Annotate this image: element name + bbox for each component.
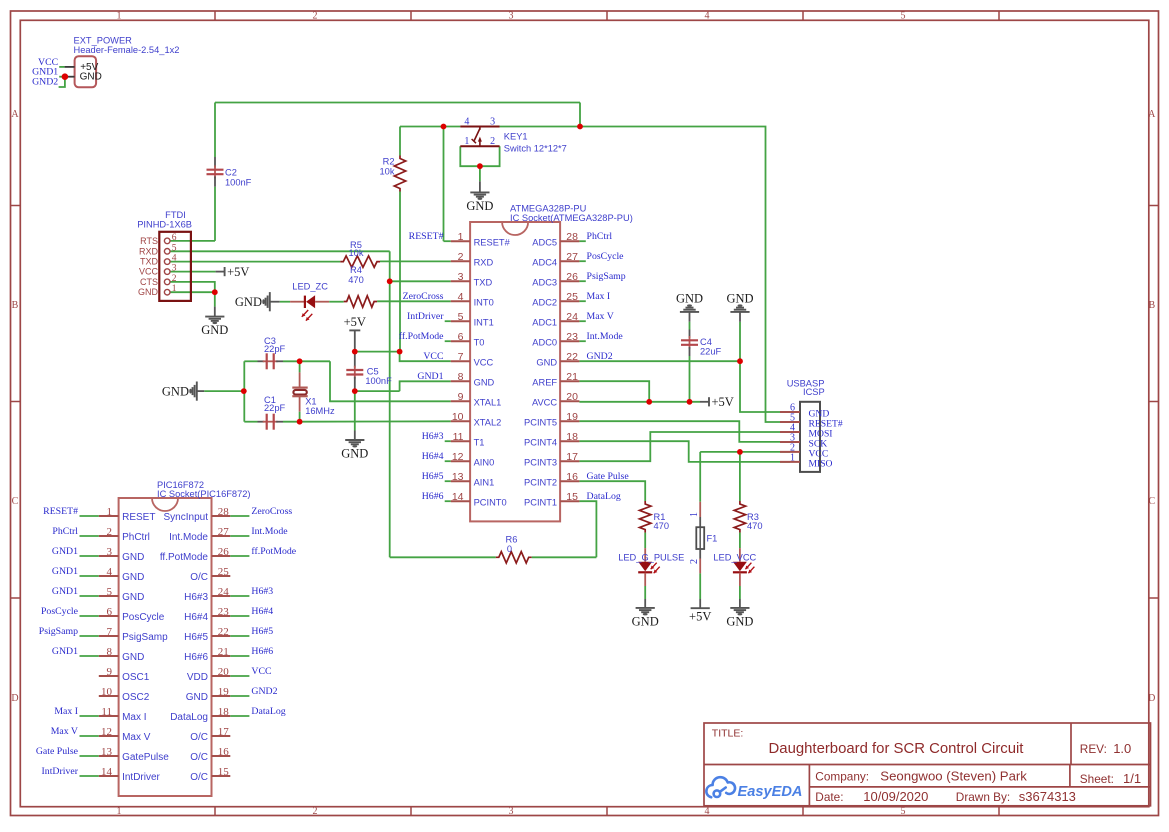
- svg-text:8: 8: [458, 371, 464, 383]
- svg-text:O/C: O/C: [190, 752, 208, 763]
- svg-text:10k: 10k: [349, 248, 364, 258]
- svg-text:LED_G_PULSE: LED_G_PULSE: [618, 553, 684, 563]
- svg-text:H6#4: H6#4: [251, 606, 273, 617]
- svg-text:9: 9: [458, 391, 464, 403]
- svg-text:12: 12: [452, 451, 464, 463]
- svg-text:T1: T1: [474, 437, 485, 447]
- svg-text:1/1: 1/1: [1123, 771, 1141, 786]
- svg-text:H6#6: H6#6: [251, 646, 273, 657]
- svg-text:27: 27: [218, 526, 230, 538]
- svg-text:INT1: INT1: [474, 317, 494, 327]
- svg-text:19: 19: [566, 411, 578, 423]
- svg-text:ZeroCross: ZeroCross: [251, 506, 292, 517]
- svg-text:1: 1: [107, 506, 113, 518]
- svg-text:Int.Mode: Int.Mode: [251, 526, 288, 537]
- svg-text:B: B: [12, 300, 19, 311]
- svg-text:OSC1: OSC1: [122, 672, 150, 683]
- svg-text:C: C: [12, 496, 19, 507]
- svg-text:GND: GND: [341, 447, 368, 461]
- svg-text:ICSP: ICSP: [803, 387, 825, 397]
- svg-text:CTS: CTS: [140, 277, 158, 287]
- svg-text:ADC1: ADC1: [532, 317, 557, 327]
- svg-text:GND: GND: [474, 377, 495, 387]
- svg-text:100nF: 100nF: [225, 177, 252, 187]
- svg-text:GND2: GND2: [32, 77, 58, 88]
- svg-text:H6#5: H6#5: [184, 632, 208, 643]
- svg-text:H6#6: H6#6: [184, 652, 208, 663]
- svg-text:KEY1: KEY1: [504, 132, 528, 142]
- svg-text:24: 24: [566, 311, 578, 323]
- svg-text:DataLog: DataLog: [251, 706, 285, 717]
- svg-text:RESET: RESET: [122, 512, 155, 523]
- svg-text:16: 16: [566, 471, 578, 483]
- svg-text:22pF: 22pF: [264, 344, 286, 354]
- svg-text:Daughterboard for SCR Control: Daughterboard for SCR Control Circuit: [769, 741, 1025, 757]
- svg-text:PCINT2: PCINT2: [524, 477, 557, 487]
- svg-text:25: 25: [566, 291, 578, 303]
- svg-text:ff.PotMode: ff.PotMode: [399, 331, 444, 342]
- svg-text:Max I: Max I: [54, 706, 78, 717]
- svg-text:3: 3: [509, 11, 514, 22]
- svg-text:IntDriver: IntDriver: [122, 772, 160, 783]
- svg-text:5: 5: [172, 243, 177, 253]
- svg-text:+5V: +5V: [712, 395, 734, 409]
- svg-text:A: A: [1148, 109, 1156, 120]
- svg-text:EXT_POWER: EXT_POWER: [74, 36, 133, 46]
- svg-text:PosCycle: PosCycle: [41, 606, 79, 617]
- svg-text:D: D: [1148, 693, 1155, 704]
- svg-text:C2: C2: [225, 168, 237, 178]
- svg-text:GND: GND: [726, 614, 753, 628]
- svg-text:2: 2: [313, 11, 318, 22]
- svg-text:GND: GND: [122, 652, 144, 663]
- svg-text:VCC: VCC: [251, 666, 271, 677]
- svg-text:IntDriver: IntDriver: [42, 766, 79, 777]
- svg-text:ADC3: ADC3: [532, 277, 557, 287]
- svg-text:GND: GND: [201, 323, 228, 337]
- svg-text:Max I: Max I: [122, 712, 146, 723]
- svg-text:1: 1: [790, 452, 795, 463]
- svg-text:3: 3: [172, 264, 177, 274]
- svg-text:15: 15: [566, 491, 578, 503]
- svg-text:3: 3: [509, 806, 514, 817]
- svg-text:INT0: INT0: [474, 297, 494, 307]
- svg-text:ADC2: ADC2: [532, 297, 557, 307]
- svg-text:T0: T0: [474, 337, 485, 347]
- svg-text:GND1: GND1: [52, 646, 78, 657]
- svg-text:GatePulse: GatePulse: [122, 752, 169, 763]
- svg-text:4: 4: [172, 254, 177, 264]
- svg-text:Drawn By:: Drawn By:: [956, 790, 1010, 804]
- svg-text:100nF: 100nF: [365, 376, 392, 386]
- svg-text:12: 12: [101, 726, 112, 738]
- svg-text:GND: GND: [676, 291, 703, 305]
- svg-text:1: 1: [117, 806, 122, 817]
- svg-text:GND: GND: [466, 199, 493, 213]
- svg-text:AREF: AREF: [532, 377, 557, 387]
- svg-text:ADC5: ADC5: [532, 237, 557, 247]
- svg-text:16: 16: [218, 746, 230, 758]
- svg-text:H6#5: H6#5: [422, 471, 444, 482]
- svg-text:22: 22: [566, 351, 578, 363]
- svg-text:8: 8: [107, 646, 113, 658]
- svg-text:22: 22: [218, 626, 229, 638]
- svg-text:H6#4: H6#4: [184, 612, 208, 623]
- svg-text:470: 470: [747, 521, 763, 531]
- svg-text:Gate Pulse: Gate Pulse: [587, 471, 630, 482]
- svg-text:H6#3: H6#3: [184, 592, 208, 603]
- svg-text:+5V: +5V: [344, 315, 366, 329]
- svg-text:GND: GND: [122, 552, 144, 563]
- svg-text:VCC: VCC: [423, 351, 443, 362]
- svg-text:GND: GND: [122, 572, 144, 583]
- svg-text:A: A: [11, 109, 19, 120]
- svg-text:1: 1: [689, 512, 700, 517]
- svg-text:5: 5: [901, 806, 906, 817]
- svg-text:GND1: GND1: [52, 546, 78, 557]
- svg-text:GND: GND: [122, 592, 144, 603]
- svg-text:TITLE:: TITLE:: [712, 727, 744, 739]
- svg-text:GND: GND: [138, 287, 159, 297]
- svg-text:3: 3: [490, 117, 495, 128]
- svg-text:25: 25: [218, 566, 230, 578]
- svg-text:PsigSamp: PsigSamp: [39, 626, 78, 637]
- svg-text:5: 5: [901, 11, 906, 22]
- svg-text:10k: 10k: [380, 167, 395, 177]
- svg-text:4: 4: [705, 11, 710, 22]
- svg-text:3: 3: [458, 271, 464, 283]
- svg-text:1: 1: [117, 11, 122, 22]
- svg-text:7: 7: [107, 626, 113, 638]
- svg-text:GND: GND: [536, 357, 557, 367]
- svg-text:B: B: [1148, 300, 1155, 311]
- svg-text:PhCtrl: PhCtrl: [587, 231, 613, 242]
- svg-text:19: 19: [218, 686, 230, 698]
- svg-text:IntDriver: IntDriver: [407, 311, 444, 322]
- svg-text:1: 1: [458, 231, 464, 243]
- svg-text:18: 18: [566, 431, 578, 443]
- svg-text:Gate Pulse: Gate Pulse: [36, 746, 79, 757]
- svg-text:AIN0: AIN0: [474, 457, 495, 467]
- svg-text:2: 2: [490, 136, 495, 147]
- svg-text:Company:: Company:: [815, 769, 869, 783]
- svg-text:H6#6: H6#6: [422, 491, 444, 502]
- svg-text:IC Socket(PIC16F872): IC Socket(PIC16F872): [157, 489, 251, 499]
- svg-text:Date:: Date:: [815, 790, 843, 804]
- svg-text:3: 3: [107, 546, 113, 558]
- svg-text:PhCtrl: PhCtrl: [52, 526, 78, 537]
- svg-text:GND: GND: [632, 614, 659, 628]
- svg-text:1: 1: [172, 284, 177, 294]
- svg-text:1: 1: [464, 136, 469, 147]
- svg-text:18: 18: [218, 706, 230, 718]
- svg-text:Int.Mode: Int.Mode: [169, 532, 208, 543]
- svg-text:+5V: +5V: [227, 265, 249, 279]
- svg-text:D: D: [11, 693, 18, 704]
- svg-text:C4: C4: [700, 337, 712, 347]
- svg-text:15: 15: [218, 766, 230, 778]
- svg-text:PsigSamp: PsigSamp: [122, 632, 168, 643]
- svg-text:XTAL2: XTAL2: [474, 417, 502, 427]
- svg-text:R2: R2: [383, 157, 395, 167]
- svg-text:PCINT3: PCINT3: [524, 457, 557, 467]
- svg-text:Max V: Max V: [587, 311, 614, 322]
- svg-text:LED_ZC: LED_ZC: [292, 282, 328, 292]
- svg-text:H6#3: H6#3: [422, 431, 444, 442]
- svg-text:O/C: O/C: [190, 732, 208, 743]
- svg-text:17: 17: [218, 726, 230, 738]
- svg-text:Max I: Max I: [587, 291, 611, 302]
- svg-text:MISO: MISO: [809, 458, 833, 469]
- svg-text:6: 6: [172, 233, 177, 243]
- svg-text:GND1: GND1: [417, 371, 443, 382]
- svg-text:PINHD-1X6B: PINHD-1X6B: [137, 219, 192, 229]
- svg-text:AIN1: AIN1: [474, 477, 495, 487]
- svg-text:28: 28: [218, 506, 230, 518]
- svg-text:13: 13: [101, 746, 113, 758]
- svg-text:RESET#: RESET#: [409, 231, 444, 242]
- svg-text:PCINT4: PCINT4: [524, 437, 557, 447]
- svg-text:PCINT0: PCINT0: [474, 497, 507, 507]
- svg-text:X1: X1: [305, 396, 316, 406]
- svg-text:O/C: O/C: [190, 772, 208, 783]
- svg-text:11: 11: [101, 706, 112, 718]
- svg-text:22pF: 22pF: [264, 403, 286, 413]
- svg-text:C: C: [1148, 496, 1155, 507]
- svg-text:10/09/2020: 10/09/2020: [863, 789, 928, 804]
- svg-text:26: 26: [566, 271, 578, 283]
- svg-text:AVCC: AVCC: [532, 397, 557, 407]
- svg-text:10: 10: [101, 686, 113, 698]
- svg-text:DataLog: DataLog: [170, 712, 208, 723]
- svg-text:GND: GND: [186, 692, 208, 703]
- svg-text:GND1: GND1: [52, 586, 78, 597]
- svg-text:SyncInput: SyncInput: [164, 512, 209, 523]
- svg-text:5: 5: [458, 311, 464, 323]
- svg-text:Max V: Max V: [122, 732, 151, 743]
- svg-text:PosCycle: PosCycle: [122, 612, 165, 623]
- svg-text:27: 27: [566, 251, 578, 263]
- svg-text:Header-Female-2.54_1x2: Header-Female-2.54_1x2: [74, 45, 180, 55]
- svg-text:5: 5: [107, 586, 113, 598]
- svg-text:2: 2: [689, 559, 700, 564]
- svg-text:4: 4: [705, 806, 710, 817]
- svg-text:PsigSamp: PsigSamp: [587, 271, 626, 282]
- svg-text:21: 21: [566, 371, 578, 383]
- svg-text:470: 470: [654, 521, 670, 531]
- svg-text:R4: R4: [350, 265, 362, 275]
- svg-text:2: 2: [313, 806, 318, 817]
- svg-text:RESET#: RESET#: [474, 237, 511, 247]
- svg-text:GND: GND: [726, 291, 753, 305]
- svg-text:23: 23: [566, 331, 578, 343]
- svg-text:14: 14: [452, 491, 464, 503]
- svg-text:6: 6: [107, 606, 113, 618]
- svg-text:7: 7: [458, 351, 464, 363]
- svg-text:0: 0: [507, 544, 512, 554]
- svg-text:+5V: +5V: [689, 610, 711, 624]
- svg-text:RTS: RTS: [140, 236, 158, 246]
- svg-text:4: 4: [107, 566, 113, 578]
- svg-text:14: 14: [101, 766, 113, 778]
- svg-text:PosCycle: PosCycle: [587, 251, 625, 262]
- svg-text:2: 2: [458, 251, 464, 263]
- svg-text:ATMEGA328P-PU: ATMEGA328P-PU: [510, 204, 586, 214]
- svg-text:1.0: 1.0: [1113, 741, 1131, 756]
- svg-text:21: 21: [218, 646, 229, 658]
- svg-text:GND: GND: [162, 384, 189, 398]
- svg-text:RESET#: RESET#: [43, 506, 78, 517]
- svg-text:OSC2: OSC2: [122, 692, 150, 703]
- svg-text:VCC: VCC: [474, 357, 494, 367]
- svg-text:11: 11: [453, 431, 464, 443]
- svg-text:6: 6: [458, 331, 464, 343]
- svg-text:RXD: RXD: [474, 257, 494, 267]
- svg-text:ZeroCross: ZeroCross: [403, 291, 444, 302]
- svg-text:4: 4: [464, 117, 469, 128]
- svg-text:VCC: VCC: [139, 267, 159, 277]
- svg-text:Int.Mode: Int.Mode: [587, 331, 624, 342]
- svg-text:F1: F1: [707, 533, 718, 543]
- svg-text:4: 4: [458, 291, 464, 303]
- svg-text:PCINT5: PCINT5: [524, 417, 557, 427]
- svg-text:28: 28: [566, 231, 578, 243]
- svg-text:ff.PotMode: ff.PotMode: [160, 552, 209, 563]
- svg-text:PCINT1: PCINT1: [524, 497, 557, 507]
- svg-text:Switch 12*12*7: Switch 12*12*7: [504, 144, 567, 154]
- svg-text:26: 26: [218, 546, 230, 558]
- svg-text:EasyEDA: EasyEDA: [738, 784, 803, 800]
- svg-text:DataLog: DataLog: [587, 491, 621, 502]
- svg-text:C5: C5: [367, 366, 379, 376]
- svg-text:GND: GND: [235, 295, 262, 309]
- svg-text:XTAL1: XTAL1: [474, 397, 502, 407]
- svg-text:16MHz: 16MHz: [305, 406, 335, 416]
- svg-text:2: 2: [172, 274, 177, 284]
- svg-text:ADC0: ADC0: [532, 337, 557, 347]
- svg-text:23: 23: [218, 606, 230, 618]
- svg-text:470: 470: [348, 275, 364, 285]
- svg-text:24: 24: [218, 586, 230, 598]
- svg-text:22uF: 22uF: [700, 346, 722, 356]
- svg-text:H6#5: H6#5: [251, 626, 273, 637]
- svg-text:GND: GND: [80, 72, 102, 83]
- svg-text:20: 20: [218, 666, 230, 678]
- svg-text:TXD: TXD: [140, 257, 159, 267]
- svg-text:GND1: GND1: [52, 566, 78, 577]
- svg-text:LED_VCC: LED_VCC: [713, 553, 756, 563]
- svg-text:PhCtrl: PhCtrl: [122, 532, 150, 543]
- svg-text:TXD: TXD: [474, 277, 493, 287]
- svg-text:ff.PotMode: ff.PotMode: [251, 546, 296, 557]
- svg-text:9: 9: [107, 666, 113, 678]
- svg-text:RXD: RXD: [139, 246, 159, 256]
- svg-text:10: 10: [452, 411, 464, 423]
- svg-text:Seongwoo (Steven) Park: Seongwoo (Steven) Park: [880, 768, 1027, 783]
- svg-text:H6#4: H6#4: [422, 451, 444, 462]
- svg-text:REV:: REV:: [1080, 742, 1107, 756]
- svg-text:2: 2: [107, 526, 113, 538]
- svg-text:GND2: GND2: [251, 686, 277, 697]
- svg-text:O/C: O/C: [190, 572, 208, 583]
- svg-text:13: 13: [452, 471, 464, 483]
- svg-text:Sheet:: Sheet:: [1080, 772, 1114, 786]
- svg-text:VDD: VDD: [187, 672, 208, 683]
- svg-text:IC Socket(ATMEGA328P-PU): IC Socket(ATMEGA328P-PU): [510, 213, 633, 223]
- svg-text:H6#3: H6#3: [251, 586, 273, 597]
- svg-text:FTDI: FTDI: [165, 210, 186, 220]
- svg-text:17: 17: [566, 451, 578, 463]
- svg-text:ADC4: ADC4: [532, 257, 557, 267]
- svg-text:s3674313: s3674313: [1019, 789, 1076, 804]
- svg-text:20: 20: [566, 391, 578, 403]
- svg-text:R6: R6: [506, 535, 518, 545]
- svg-text:GND2: GND2: [587, 351, 613, 362]
- svg-text:Max V: Max V: [51, 726, 78, 737]
